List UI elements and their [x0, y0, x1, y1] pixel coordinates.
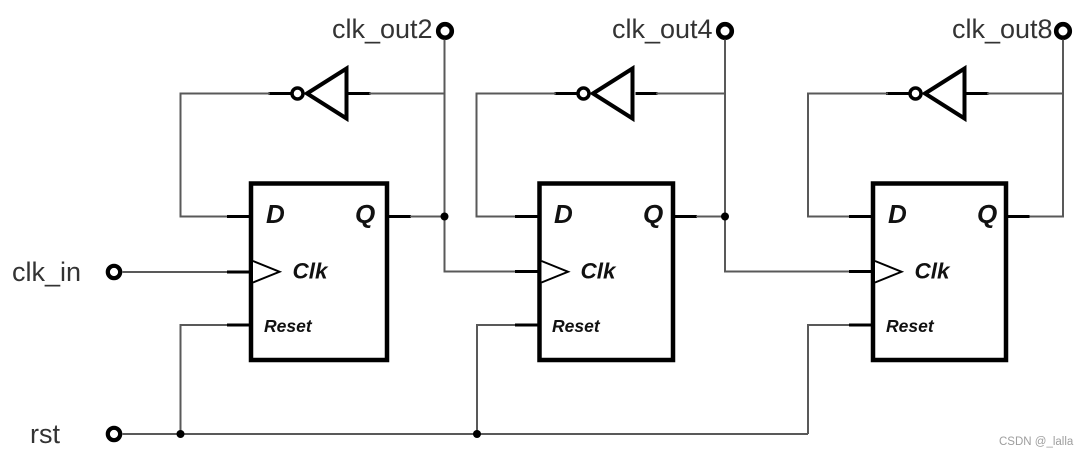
pin U3 D	[888, 199, 907, 229]
node clk_out8	[952, 14, 1053, 44]
svg-text:Reset: Reset	[552, 316, 601, 336]
svg-text:Clk: Clk	[581, 259, 618, 284]
bubble U5	[578, 88, 589, 99]
terminal clk_in	[108, 266, 120, 278]
bubble U4	[292, 88, 303, 99]
wire rst to U2 Reset	[477, 325, 538, 434]
pin U1 Q	[355, 199, 375, 229]
inverter U5	[593, 69, 633, 119]
inverter U6	[925, 69, 965, 119]
clock symbol U2	[542, 261, 569, 283]
svg-text:Reset: Reset	[886, 316, 935, 336]
pin U1 Clk	[293, 259, 330, 284]
svg-text:CSDN @_lalla: CSDN @_lalla	[999, 436, 1074, 448]
flip-flop U2	[540, 184, 674, 361]
flip-flop U1	[251, 184, 387, 361]
wire U6 inverter input	[967, 92, 1064, 95]
wire U4 inverter input	[349, 92, 445, 95]
pin U3 Reset	[886, 316, 935, 336]
svg-text:clk_out4: clk_out4	[612, 14, 713, 44]
svg-text:Q: Q	[355, 199, 375, 229]
svg-text:D: D	[554, 199, 573, 229]
pin U2 Reset	[552, 316, 601, 336]
terminal rst	[108, 428, 120, 440]
wire U6 output feedback to U3 D	[808, 94, 909, 217]
pin U2 Q	[643, 199, 663, 229]
svg-text:clk_in: clk_in	[12, 257, 81, 287]
wire clk_in to U1 Clk	[123, 271, 250, 273]
bubble U6	[910, 88, 921, 99]
wire U3 Q output	[1006, 215, 1030, 218]
wire rst to U3 Reset	[808, 325, 871, 434]
node clk_out4	[612, 14, 713, 44]
wire net clk_out4 vertical	[725, 40, 871, 272]
wire U5 output feedback to U2 D	[477, 94, 578, 217]
pin U3 Q	[977, 199, 997, 229]
pin U2 Clk	[581, 259, 618, 284]
wire net clk_out8 vertical	[1027, 40, 1063, 217]
terminal clk_out2	[438, 24, 452, 38]
pin U3 Clk	[915, 259, 952, 284]
junction rst-U1	[177, 430, 185, 438]
svg-text:D: D	[266, 199, 285, 229]
flip-flop U3	[873, 184, 1006, 361]
junction rst-U2	[473, 430, 481, 438]
node rst	[30, 419, 60, 449]
svg-text:clk_out8: clk_out8	[952, 14, 1053, 44]
terminal clk_out4	[718, 24, 732, 38]
wire U5 inverter input	[636, 92, 726, 95]
clock symbol U1	[253, 261, 280, 283]
svg-text:D: D	[888, 199, 907, 229]
svg-text:rst: rst	[30, 419, 60, 449]
wire U1 Q output	[387, 215, 445, 218]
svg-text:Clk: Clk	[293, 259, 330, 284]
svg-text:clk_out2: clk_out2	[332, 14, 433, 44]
watermark	[999, 436, 1074, 448]
junction Q1	[441, 213, 449, 221]
terminal clk_out8	[1056, 24, 1070, 38]
svg-text:Clk: Clk	[915, 259, 952, 284]
wire U2 Q output	[673, 215, 725, 218]
pin U1 D	[266, 199, 285, 229]
wire rst to U1 Reset	[181, 325, 250, 434]
wire U4 output feedback to U1 D	[181, 94, 292, 217]
inverter U4	[307, 69, 347, 119]
pin U2 D	[554, 199, 573, 229]
wire rst bus	[123, 433, 809, 435]
node clk_out2	[332, 14, 433, 44]
pin U1 Reset	[264, 316, 313, 336]
node clk_in	[12, 257, 81, 287]
junction Q2	[721, 213, 729, 221]
svg-text:Reset: Reset	[264, 316, 313, 336]
svg-text:Q: Q	[643, 199, 663, 229]
clock symbol U3	[875, 261, 902, 283]
wire net clk_out2 vertical	[445, 40, 538, 272]
svg-text:Q: Q	[977, 199, 997, 229]
